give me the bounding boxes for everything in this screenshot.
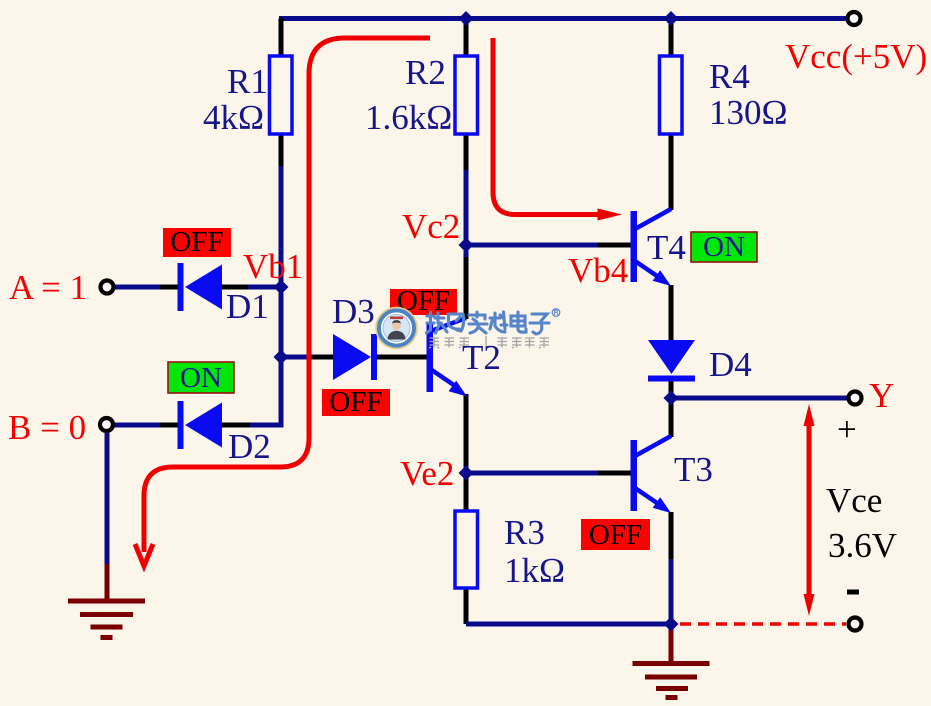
wire node to D3: [281, 355, 313, 360]
wire D3 cathode to T2 base: [377, 355, 427, 360]
wire input A to D1: [112, 285, 163, 290]
svg-text:T3: T3: [674, 450, 713, 489]
watermark brand text: [427, 312, 550, 334]
svg-text:T2: T2: [462, 338, 501, 377]
svg-text:Y: Y: [869, 376, 894, 415]
junction node on rail above R2: [459, 11, 474, 26]
wire R4 top lead: [669, 19, 674, 58]
svg-text:D3: D3: [332, 292, 375, 331]
transistor T3: [631, 436, 672, 513]
status box ON for T4: [691, 231, 757, 263]
label minus sign: [847, 590, 859, 595]
wire Ve2 down to R3: [464, 473, 469, 512]
svg-text:Vce: Vce: [826, 481, 882, 520]
wire D1 cathode stub: [222, 285, 250, 290]
resistor R1: [270, 56, 293, 134]
current flow arrow right: [493, 38, 622, 221]
status box OFF for T3: [581, 519, 650, 551]
svg-text:R4: R4: [709, 57, 750, 96]
wire ground stub bottom: [669, 624, 674, 661]
node Vc2 junction: [459, 238, 474, 253]
wire R3 to bottom node: [466, 622, 671, 627]
wire R1 top lead: [279, 19, 284, 58]
wire R1 bottom lead: [279, 133, 284, 168]
svg-text:ON: ON: [180, 362, 222, 394]
junction node at bottom ground: [664, 617, 679, 632]
ground left: [68, 601, 145, 638]
watermark slogan text: [429, 336, 549, 349]
status box ON for D2: [168, 362, 234, 394]
diode D4: [648, 340, 695, 382]
watermark logo: [376, 308, 417, 349]
wire T3 emitter down: [669, 512, 674, 561]
wire R2 to node Vc2: [464, 170, 469, 245]
transistor T2: [427, 318, 468, 397]
svg-text:Vb1: Vb1: [243, 247, 303, 286]
wire Vc2 to T4 base: [466, 243, 600, 248]
status box OFF below D3: [322, 386, 390, 418]
junction node at D3 tap: [274, 350, 289, 365]
svg-text:D1: D1: [226, 287, 269, 326]
terminal Vce reference: [849, 618, 862, 631]
wire top rail Vcc: [279, 16, 847, 21]
svg-text:B = 0: B = 0: [8, 408, 86, 447]
wire R2 bottom lead: [464, 133, 469, 172]
wire node Y to output terminal: [671, 396, 848, 401]
current flow arrow left: [135, 38, 430, 566]
node Y junction: [664, 391, 679, 406]
wire D2 anode stub: [160, 423, 180, 428]
svg-text:1.6kΩ: 1.6kΩ: [365, 98, 452, 137]
svg-text:+: +: [837, 410, 857, 449]
svg-text:130Ω: 130Ω: [709, 93, 788, 132]
wire node Y to T3 collector: [669, 398, 674, 437]
svg-text:T4: T4: [647, 228, 686, 267]
node Vb1 junction: [274, 280, 289, 295]
resistor R3: [455, 511, 478, 588]
wire D4 to node Y: [669, 380, 674, 398]
svg-text:R3: R3: [504, 513, 545, 552]
wire input B to D2: [112, 423, 163, 428]
diode D3: [333, 334, 377, 380]
svg-text:D2: D2: [228, 427, 271, 466]
wire Ve2 to T3 base: [466, 471, 600, 476]
svg-text:Ve2: Ve2: [400, 454, 454, 493]
diode D2: [178, 401, 223, 449]
svg-text:R2: R2: [405, 53, 446, 92]
wire D1 anode stub: [160, 285, 180, 290]
svg-text:OFF: OFF: [329, 386, 382, 418]
terminal Vcc: [848, 12, 861, 25]
wire D3 anode stub: [311, 355, 334, 360]
status box OFF for T2: [390, 285, 457, 317]
svg-text:OFF: OFF: [589, 519, 642, 551]
transistor T4: [631, 209, 672, 286]
wire T4 emitter to D4: [669, 285, 674, 341]
terminal input B: [100, 418, 113, 431]
svg-text:1kΩ: 1kΩ: [504, 551, 565, 590]
svg-text:ON: ON: [703, 231, 745, 263]
wire R1 to node Vb1: [279, 166, 284, 287]
svg-text:Vb4: Vb4: [568, 251, 628, 290]
svg-text:A = 1: A = 1: [9, 268, 87, 307]
ground bottom: [633, 664, 710, 698]
wire R2 top lead: [464, 19, 469, 58]
wire Vc2 to T2 collector: [464, 257, 469, 319]
Vce measurement arrow: [804, 404, 815, 616]
wire T2 emitter to node Ve2: [464, 394, 469, 468]
wire D1 to Vb1: [248, 285, 281, 290]
wire T3 emitter to bottom node: [669, 559, 674, 624]
svg-text:OFF: OFF: [170, 226, 223, 258]
wire D2 cathode stub: [222, 423, 250, 428]
status box OFF for D1: [163, 226, 231, 258]
resistor R2: [455, 56, 478, 134]
dashed line to Vce reference: [680, 622, 846, 625]
wire Ve2 stub: [464, 466, 469, 473]
terminal output Y: [849, 392, 862, 405]
junction node on rail above R4: [664, 11, 679, 26]
node Ve2 junction: [459, 466, 474, 481]
wire R3 bottom lead: [464, 587, 469, 624]
wire B terminal to ground: [105, 430, 110, 566]
wire T3 base stub: [598, 471, 631, 476]
svg-text:4kΩ: 4kΩ: [203, 98, 264, 137]
watermark registered mark: [552, 309, 560, 317]
wire Vc2 down stub: [464, 245, 469, 259]
terminal input A: [101, 281, 114, 294]
svg-text:3.6V: 3.6V: [828, 526, 897, 565]
resistor R4: [660, 56, 683, 134]
diode D1: [178, 263, 223, 311]
wire R4 bottom lead to T4 collector: [669, 133, 674, 210]
svg-text:D4: D4: [709, 345, 752, 384]
wire T4 base stub: [598, 243, 633, 248]
svg-text:Vcc(+5V): Vcc(+5V): [785, 37, 927, 76]
svg-text:Vc2: Vc2: [402, 207, 460, 246]
wire Vb1 down to B corner: [247, 287, 281, 425]
wire ground stub left: [105, 564, 110, 600]
svg-text:R1: R1: [227, 62, 268, 101]
